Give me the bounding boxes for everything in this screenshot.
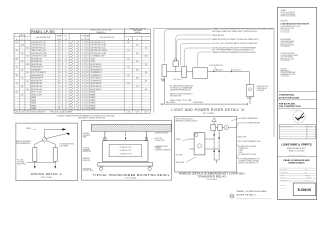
svg-text:46: 46 [82, 103, 84, 105]
GFI WP receptacle [246, 85, 254, 97]
svg-text:RISER DETAILS: RISER DETAILS [237, 193, 256, 196]
svg-text:EQUIP WHERE REQD: EQUIP WHERE REQD [16, 143, 30, 145]
svg-text:OWNER:: OWNER: [281, 10, 287, 12]
svg-text:37: 37 [65, 92, 67, 94]
svg-text:20/1: 20/1 [58, 61, 61, 63]
svg-text:44: 44 [82, 100, 84, 102]
svg-text:1080: 1080 [21, 45, 24, 47]
svg-text:MEP ENGINEER:: MEP ENGINEER: [281, 39, 292, 41]
svg-text:1080: 1080 [136, 78, 139, 80]
svg-text:20/1: 20/1 [58, 53, 61, 55]
svg-text:PROJECT NO:: PROJECT NO: [280, 180, 289, 182]
svg-text:34: 34 [82, 86, 84, 88]
svg-text:45: 45 [65, 103, 67, 105]
cable tap box [173, 61, 179, 67]
svg-text:39: 39 [65, 94, 67, 96]
svg-text:SHORT HILLS WINE CO.: SHORT HILLS WINE CO. [281, 12, 297, 14]
svg-text:231 W 29TH STREET: 231 W 29TH STREET [281, 43, 294, 45]
svg-text:300: 300 [21, 94, 23, 96]
svg-text:MB: MB [305, 169, 307, 171]
svg-text:NO. DESCRIPTION: NO. DESCRIPTION [281, 125, 292, 127]
svg-text:POLE: POLE [86, 39, 90, 41]
svg-text:COMPRESSOR: COMPRESSOR [90, 72, 102, 74]
svg-text:COMPRESSOR: COMPRESSOR [90, 80, 102, 82]
svg-text:20/1: 20/1 [86, 58, 89, 60]
svg-text:SHEET NO.: SHEET NO. [280, 185, 287, 187]
svg-text:20/1: 20/1 [86, 56, 89, 58]
svg-text:14: 14 [82, 58, 84, 60]
svg-text:20/1: 20/1 [58, 64, 61, 66]
transformer detail box [82, 121, 172, 181]
svg-text:11: 11 [65, 56, 67, 58]
svg-text:20/1: 20/1 [58, 103, 61, 105]
svg-text:24: 24 [82, 72, 84, 74]
svg-text:500: 500 [127, 83, 129, 85]
svg-text:48: 48 [82, 105, 84, 107]
svg-text:CKT: CKT [65, 35, 68, 37]
svg-text:WINE COOLER: WINE COOLER [31, 92, 43, 94]
svg-text:BOLT TYPE: BOLT TYPE [155, 138, 162, 140]
svg-text:RISER DETAILS: RISER DETAILS [288, 162, 305, 165]
svg-text:28: 28 [82, 78, 84, 80]
svg-text:NEW YORK, NY 10001: NEW YORK, NY 10001 [281, 44, 295, 46]
svg-text:PANEL LP-RS: PANEL LP-RS [31, 30, 55, 34]
relay box [194, 133, 205, 155]
svg-text:20/1: 20/1 [58, 42, 61, 44]
svg-text:DO NOT DUPLICATE: DO NOT DUPLICATE [279, 96, 300, 99]
totals row [14, 110, 150, 113]
svg-text:20/1: 20/1 [86, 103, 89, 105]
svg-text:29: 29 [65, 80, 67, 82]
svg-text:20/1: 20/1 [58, 67, 61, 69]
wires detail A [34, 144, 36, 147]
svg-text:4#4/0, #4G, 2"C: 4#4/0, #4G, 2"C [173, 79, 183, 81]
svg-text:P.L. LINE: P.L. LINE [17, 160, 23, 162]
svg-text:CONNECTOR: CONNECTOR [239, 148, 248, 150]
svg-text:20/1: 20/1 [86, 67, 89, 69]
svg-text:SIGNS: SIGNS [90, 61, 95, 63]
svg-text:LIGHTING FIXT. (LS): LIGHTING FIXT. (LS) [90, 47, 105, 49]
svg-text:20/1: 20/1 [58, 50, 61, 52]
svg-text:USE GF-WP-20 FT: USE GF-WP-20 FT [257, 86, 269, 88]
svg-text:30: 30 [82, 80, 84, 82]
svg-text:LIGHTING FIXT. (LS): LIGHTING FIXT. (LS) [31, 45, 46, 47]
svg-text:T 212.431.1400: T 212.431.1400 [281, 60, 290, 62]
svg-text:21: 21 [65, 69, 67, 71]
svg-text:4#8,#10G,1"C: 4#8,#10G,1"C [215, 69, 224, 71]
svg-text:500: 500 [127, 42, 129, 44]
svg-text:1080: 1080 [136, 69, 139, 71]
svg-text:360: 360 [136, 61, 138, 63]
svg-text:CONNECTORS: CONNECTORS [155, 140, 165, 142]
hanger rods [104, 131, 106, 140]
svg-text:20/1: 20/1 [58, 105, 61, 107]
svg-text:20/1: 20/1 [58, 56, 61, 58]
svg-text:EXISTING: EXISTING [83, 133, 89, 135]
ceiling fixture symbol [212, 118, 216, 122]
svg-text:B: B [22, 39, 23, 41]
photocell circle [42, 137, 47, 142]
floor line [161, 103, 247, 105]
svg-text:17: 17 [65, 64, 67, 66]
svg-text:360: 360 [26, 56, 28, 58]
svg-text:WP/GFI: CONNECT TO NO. 4 BET: WP/GFI: CONNECT TO NO. 4 BET [170, 100, 192, 102]
svg-text:13: 13 [65, 58, 67, 60]
svg-text:300: 300 [127, 50, 129, 52]
svg-text:20: 20 [82, 67, 84, 69]
svg-text:500: 500 [26, 80, 28, 82]
svg-text:LIGHTING FIXT. (LSE): LIGHTING FIXT. (LSE) [31, 53, 47, 55]
svg-text:20/1: 20/1 [58, 72, 61, 74]
svg-text:FOR CONSTRUCTION: FOR CONSTRUCTION [279, 106, 301, 108]
svg-text:4#8,#10G,1"C: 4#8,#10G,1"C [233, 69, 242, 71]
svg-text:LIGHTING DESIGNER:: LIGHTING DESIGNER: [281, 53, 296, 55]
breaker tick marks [71, 41, 79, 109]
svg-text:REMOTE LED/DRIVER: REMOTE LED/DRIVER [16, 141, 31, 143]
ballast right [53, 148, 57, 162]
svg-text:110 E 25TH STREET: 110 E 25TH STREET [281, 57, 294, 59]
sheet annotation bubble [230, 194, 234, 198]
wiring detail B box [175, 116, 237, 172]
svg-text:LIGHTING FIXT. (LS): LIGHTING FIXT. (LS) [90, 42, 105, 44]
svg-text:LIGHTING FIXT. (LS): LIGHTING FIXT. (LS) [31, 47, 46, 49]
svg-text:540: 540 [127, 67, 129, 69]
svg-text:CONFIDENTIAL: CONFIDENTIAL [279, 94, 295, 97]
svg-text:GM: GM [305, 172, 307, 174]
svg-text:720: 720 [21, 78, 23, 80]
svg-text:20/1: 20/1 [58, 75, 61, 77]
svg-text:1080: 1080 [145, 56, 148, 58]
svg-text:20/1: 20/1 [58, 83, 61, 85]
svg-text:20/1: 20/1 [86, 47, 89, 49]
svg-text:540: 540 [21, 53, 23, 55]
svg-text:4,804: 4,804 [21, 111, 25, 113]
svg-text:360: 360 [16, 67, 18, 69]
svg-text:43: 43 [65, 100, 67, 102]
svg-text:LP/RS-2: LP/RS-2 [176, 139, 181, 141]
svg-text:360: 360 [145, 89, 147, 91]
svg-text:27: 27 [65, 78, 67, 80]
svg-text:NEW YORK, NY 10010: NEW YORK, NY 10010 [281, 58, 295, 60]
svg-text:16: 16 [82, 61, 84, 63]
svg-text:20/1: 20/1 [86, 50, 89, 52]
svg-text:NO WORK CIRCUIT GUIDE: NO WORK CIRCUIT GUIDE [239, 154, 257, 156]
svg-text:20/1: 20/1 [86, 42, 89, 44]
svg-text:360: 360 [16, 92, 18, 94]
svg-text:PANEL SCHEDULES AND: PANEL SCHEDULES AND [237, 190, 267, 193]
svg-text:RUN LP/RS-2: RUN LP/RS-2 [17, 164, 26, 166]
svg-text:20/1: 20/1 [58, 89, 61, 91]
svg-text:1 RED: 1 RED [239, 150, 243, 152]
svg-text:20/1: 20/1 [86, 78, 89, 80]
transformer body [103, 141, 148, 162]
svg-text:GMW DESIGN GROUP: GMW DESIGN GROUP [281, 41, 295, 43]
svg-text:300: 300 [21, 69, 23, 71]
svg-text:300: 300 [26, 72, 28, 74]
svg-text:BLK TO EXIT FIXT/EMERG CONN.: BLK TO EXIT FIXT/EMERG CONN. [239, 141, 262, 143]
svg-text:WP/GFI: WP/GFI [247, 98, 252, 100]
leader lines [164, 30, 211, 62]
svg-text:360: 360 [21, 86, 23, 88]
svg-text:41: 41 [65, 97, 67, 99]
svg-text:20/1: 20/1 [58, 47, 61, 49]
svg-text:17-250: 17-250 [305, 180, 309, 182]
disconnect switch [182, 66, 187, 77]
svg-text:540: 540 [21, 61, 23, 63]
svg-text:SIGNS: SIGNS [90, 58, 95, 60]
svg-text:20/1: 20/1 [86, 61, 89, 63]
svg-text:4,845: 4,845 [15, 111, 19, 113]
svg-text:12: 12 [82, 56, 84, 58]
svg-text:900: 900 [16, 42, 18, 44]
svg-text:5,163: 5,163 [127, 111, 131, 113]
svg-text:'LP/RS': 'LP/RS' [161, 81, 166, 83]
svg-text:300: 300 [16, 75, 18, 77]
svg-text:25: 25 [65, 75, 67, 77]
slab hatch band [91, 124, 171, 131]
svg-text:20/1: 20/1 [86, 105, 89, 107]
svg-text:40: 40 [82, 94, 84, 96]
svg-text:T 201.330.1500: T 201.330.1500 [281, 76, 290, 78]
svg-text:35: 35 [65, 89, 67, 91]
svg-text:26: 26 [82, 75, 84, 77]
svg-text:20/1: 20/1 [86, 97, 89, 99]
svg-text:20/1: 20/1 [58, 69, 61, 71]
svg-text:20/1: 20/1 [58, 45, 61, 47]
svg-text:10: 10 [82, 53, 84, 55]
svg-text:540: 540 [145, 72, 147, 74]
svg-text:20/1: 20/1 [58, 86, 61, 88]
svg-text:LIGHTING FIXT. (LSE): LIGHTING FIXT. (LSE) [90, 45, 106, 47]
svg-text:36: 36 [82, 89, 84, 91]
svg-text:20/1: 20/1 [86, 80, 89, 82]
svg-text:720: 720 [16, 83, 18, 85]
svg-text:300: 300 [136, 45, 138, 47]
svg-text:NEUT. WHT: NEUT. WHT [239, 137, 247, 139]
svg-text:1080: 1080 [15, 58, 18, 60]
svg-text:20/1: 20/1 [86, 86, 89, 88]
svg-text:CHECKED BY:: CHECKED BY: [280, 172, 289, 174]
svg-text:47: 47 [65, 105, 67, 107]
svg-text:360: 360 [26, 47, 28, 49]
svg-text:18: 18 [82, 64, 84, 66]
svg-text:FOR BID PLANS: FOR BID PLANS [279, 102, 296, 105]
svg-text:300: 300 [136, 53, 138, 55]
svg-text:300: 300 [145, 64, 147, 66]
transformer T [193, 68, 208, 79]
svg-text:T 212.564.1200: T 212.564.1200 [281, 46, 290, 48]
risers with arrows [213, 130, 215, 160]
svg-text:32: 32 [82, 83, 84, 85]
svg-text:20/1: 20/1 [86, 83, 89, 85]
svg-text:CONCRETE: CONCRETE [83, 135, 91, 137]
svg-text:900: 900 [26, 89, 28, 91]
svg-text:19: 19 [65, 67, 67, 69]
svg-text:ROOF TOP RECEPT.: ROOF TOP RECEPT. [31, 72, 47, 74]
svg-text:900: 900 [16, 50, 18, 52]
svg-text:20/1: 20/1 [86, 100, 89, 102]
svg-text:23: 23 [65, 72, 67, 74]
wiring detail A box [16, 123, 78, 180]
svg-text:20/1: 20/1 [58, 78, 61, 80]
svg-text:FLEX CONNECTION: FLEX CONNECTION [210, 65, 223, 67]
svg-text:20/1: 20/1 [86, 75, 89, 77]
svg-text:360: 360 [145, 80, 147, 82]
panel LP/RS riser [162, 65, 167, 77]
svg-text:COMPRESSOR: COMPRESSOR [90, 75, 102, 77]
svg-text:BUILDER:: BUILDER: [281, 69, 288, 71]
svg-text:500: 500 [127, 75, 129, 77]
svg-text:42: 42 [82, 97, 84, 99]
svg-text:4,969: 4,969 [26, 111, 30, 113]
svg-text:120V TO EXIT / EMERG FIXTURE: 120V TO EXIT / EMERG FIXTURE [239, 122, 261, 124]
svg-text:CKT HOME: CKT HOME [17, 162, 24, 164]
svg-text:1080: 1080 [26, 64, 29, 66]
svg-text:20/1: 20/1 [58, 58, 61, 60]
svg-text:33: 33 [65, 86, 67, 88]
svg-text:540: 540 [136, 86, 138, 88]
sheet number box [293, 183, 316, 196]
svg-text:TYPE W/ 1" MIN.: TYPE W/ 1" MIN. [83, 170, 94, 172]
svg-text:38: 38 [82, 92, 84, 94]
revision table [279, 125, 315, 139]
svg-text:F 212.255.1101: F 212.255.1101 [281, 31, 290, 33]
svg-text:20/1: 20/1 [58, 97, 61, 99]
svg-text:5,295: 5,295 [136, 111, 140, 113]
svg-text:LIGHT AND POWER RISER DETAIL ': LIGHT AND POWER RISER DETAIL 'A' [171, 108, 245, 112]
panel schedule table PANEL LP-RS [30, 29, 63, 34]
svg-text:LOWE WINE & SPIRITS: LOWE WINE & SPIRITS [281, 143, 312, 147]
svg-text:20/1: 20/1 [86, 89, 89, 91]
svg-text:WINE COOLER: WINE COOLER [31, 94, 43, 96]
svg-text:PANEL SCHEDULES AND: PANEL SCHEDULES AND [283, 159, 309, 162]
svg-text:360: 360 [145, 47, 147, 49]
svg-text:20/1: 20/1 [86, 45, 89, 47]
trapeze channel [98, 163, 153, 166]
svg-text:TRANSFER RELAY: TRANSFER RELAY [198, 175, 227, 179]
svg-text:15: 15 [65, 61, 67, 63]
riser wires [167, 71, 173, 73]
svg-text:TYPICAL TRANSFORMER MOUNTING D: TYPICAL TRANSFORMER MOUNTING DETAIL [92, 173, 170, 177]
svg-text:20/1: 20/1 [86, 92, 89, 94]
svg-text:31: 31 [65, 83, 67, 85]
svg-text:20/1: 20/1 [86, 53, 89, 55]
ballast left [33, 148, 37, 162]
svg-text:5,070: 5,070 [144, 111, 148, 113]
svg-text:20/1: 20/1 [58, 100, 61, 102]
svg-text:NIGHT LIGHT: NIGHT LIGHT [176, 162, 185, 164]
svg-text:WITH SWITCHES: WITH SWITCHES [170, 95, 181, 97]
svg-text:SWITCH IT ON NIGHT CKT. 25: SWITCH IT ON NIGHT CKT. 25 [239, 163, 259, 165]
svg-text:20/1: 20/1 [58, 94, 61, 96]
bottom bus detail A [16, 161, 35, 163]
svg-text:STEEL RODS: STEEL RODS [83, 151, 92, 153]
svg-text:USE SPRING: USE SPRING [83, 168, 91, 170]
svg-text:E-006.00: E-006.00 [298, 188, 312, 192]
svg-text:20/1: 20/1 [86, 72, 89, 74]
svg-text:LIGHTING FIXT. (LSE): LIGHTING FIXT. (LSE) [90, 53, 106, 55]
svg-text:(TO) SECURITY SIGN: (TO) SECURITY SIGN [60, 144, 74, 146]
jbox row [211, 125, 216, 131]
svg-text:POLE: POLE [57, 39, 61, 41]
title block sidebar [278, 7, 317, 199]
svg-text:LIGHTING FIXT. (LS): LIGHTING FIXT. (LS) [31, 42, 46, 44]
svg-text:EXIT SIGN: EXIT SIGN [176, 155, 183, 157]
svg-text:LIGHTING FIXT. (SIGN): LIGHTING FIXT. (SIGN) [90, 50, 107, 52]
svg-text:LP/RS-1: LP/RS-1 [26, 128, 32, 130]
svg-text:360: 360 [127, 58, 129, 60]
svg-text:JERSEY CITY, NJ 07302: JERSEY CITY, NJ 07302 [289, 150, 305, 152]
svg-text:LIGHTING FIXT. (LSE): LIGHTING FIXT. (LSE) [31, 56, 47, 58]
svg-text:SHORT HILLS, NJ 07078: SHORT HILLS, NJ 07078 [281, 16, 296, 18]
svg-text:1 BLU: 1 BLU [239, 152, 243, 154]
svg-text:NEW YORK, NY 10010: NEW YORK, NY 10010 [281, 28, 295, 30]
svg-text:PROVIDED: PROVIDED [257, 90, 264, 92]
svg-text:T 212.255.1100: T 212.255.1100 [281, 30, 290, 32]
svg-text:20/1: 20/1 [58, 80, 61, 82]
svg-text:20/1: 20/1 [58, 92, 61, 94]
svg-text:20/1: 20/1 [86, 64, 89, 66]
svg-text:EMERGENCY LIGHTING CIRCUIT: EMERGENCY LIGHTING CIRCUIT [176, 120, 198, 122]
svg-text:DROP CEILING (CLG LTD): DROP CEILING (CLG LTD) [176, 118, 194, 120]
svg-text:22: 22 [82, 69, 84, 71]
svg-text:20/1: 20/1 [86, 69, 89, 71]
svg-text:WORK THE GFI: WORK THE GFI [257, 88, 268, 90]
svg-text:06 OF 09: 06 OF 09 [280, 188, 285, 190]
svg-text:WIRING DETAIL A: WIRING DETAIL A [31, 172, 63, 176]
svg-text:03/16/18: 03/16/18 [305, 174, 310, 176]
svg-text:B: B [137, 39, 138, 41]
riser area border [154, 27, 273, 29]
svg-text:20/1: 20/1 [86, 94, 89, 96]
